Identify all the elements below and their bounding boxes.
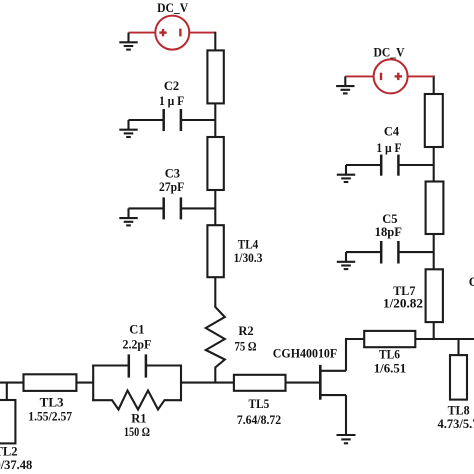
svg-text:C2: C2 <box>164 79 179 93</box>
voltage source V2 <box>374 59 408 93</box>
ground at C5 <box>337 252 355 269</box>
svg-text:R1: R1 <box>131 411 146 425</box>
resistor R1 (bottom branch) <box>92 391 182 410</box>
svg-text:1.55/2.57: 1.55/2.57 <box>28 410 72 424</box>
svg-text:C: C <box>469 275 474 289</box>
transmission line (upper right bias) <box>425 94 443 147</box>
svg-text:1 µ F: 1 µ F <box>376 141 402 155</box>
svg-text:C1: C1 <box>129 322 144 336</box>
capacitor C5 <box>346 241 434 264</box>
transmission line TL7 <box>426 269 443 322</box>
svg-text:TL4: TL4 <box>238 237 259 251</box>
output wire <box>415 338 474 340</box>
transmission line TL2 <box>0 400 15 443</box>
capacitor C1 (top branch) <box>92 354 182 377</box>
capacitor C3 <box>129 197 216 219</box>
transmission line TL8 <box>450 355 467 400</box>
wire TL7 to output node <box>433 322 435 339</box>
wire box to TL5 <box>181 382 234 384</box>
svg-text:C5: C5 <box>382 212 397 226</box>
svg-text:C4: C4 <box>384 125 400 139</box>
svg-text:TL2: TL2 <box>0 445 18 459</box>
svg-text:1/20.82: 1/20.82 <box>383 296 423 310</box>
svg-text:75 Ω: 75 Ω <box>234 339 256 353</box>
wire V1 to bias line <box>214 32 216 51</box>
svg-text:TL6: TL6 <box>379 348 400 362</box>
wire V2 right (red) <box>407 75 433 77</box>
svg-text:TL8: TL8 <box>448 404 470 418</box>
C1R1 box right edge <box>180 365 182 402</box>
ground at Q1 source <box>337 435 356 443</box>
transmission line (upper left bias) <box>207 50 223 103</box>
wire source to ground <box>345 395 347 434</box>
svg-text:4.73/5.78: 4.73/5.78 <box>438 417 474 431</box>
transistor Q1 CGH40010F <box>320 365 346 400</box>
svg-text:TL3: TL3 <box>40 396 64 410</box>
wire stub to TL2 <box>6 383 8 400</box>
transmission line (mid right bias) <box>426 182 444 235</box>
wire output node to TL8 <box>457 339 459 355</box>
svg-text:C3: C3 <box>165 166 180 180</box>
ground at V2 <box>336 76 354 93</box>
voltage source V1 <box>155 16 189 50</box>
transmission line TL5 <box>234 375 286 391</box>
svg-text:18pF: 18pF <box>375 225 403 239</box>
ground at C2 <box>119 120 137 137</box>
svg-text:0/37.48: 0/37.48 <box>0 458 32 472</box>
input wire to TL3 <box>0 382 25 384</box>
transmission line TL6 <box>364 331 415 347</box>
wire to C3 node <box>214 190 216 225</box>
wire C4 node to mid right bias TL <box>433 147 435 182</box>
svg-text:1/6.51: 1/6.51 <box>374 361 407 375</box>
svg-text:27pF: 27pF <box>159 180 184 194</box>
wire V2 left (red) <box>345 75 373 77</box>
svg-text:DC_V: DC_V <box>374 46 405 60</box>
svg-text:CGH40010F: CGH40010F <box>273 347 338 361</box>
wire V1 right (red) <box>189 32 215 34</box>
svg-text:150 Ω: 150 Ω <box>124 425 150 439</box>
svg-text:DC_V: DC_V <box>157 1 188 15</box>
ground at V1 <box>119 33 137 50</box>
svg-text:2.2pF: 2.2pF <box>123 337 152 351</box>
svg-text:TL5: TL5 <box>249 397 270 411</box>
svg-text:1/30.3: 1/30.3 <box>234 251 263 265</box>
C1R1 box left edge <box>92 365 94 402</box>
capacitor C4 <box>346 155 434 176</box>
svg-text:R2: R2 <box>238 324 253 338</box>
wire V2 to upper right bias TL <box>433 76 435 95</box>
capacitor C2 <box>129 109 216 131</box>
transmission line TL4 <box>207 225 223 277</box>
ground at C3 <box>119 208 137 225</box>
svg-text:7.64/8.72: 7.64/8.72 <box>237 413 281 427</box>
wire to C2 node <box>214 103 216 137</box>
wire TL3 to C1R1 box <box>76 382 93 384</box>
transmission line (mid left bias) <box>207 137 223 190</box>
ground at C4 <box>337 165 355 182</box>
wire C5 node to TL7 <box>433 234 435 269</box>
wire drain to TL6 <box>346 339 364 371</box>
wire V1 left (red) <box>129 32 156 34</box>
resistor R2 <box>206 306 225 384</box>
transmission line TL3 <box>24 374 77 391</box>
wire TL5 to gate <box>286 382 321 384</box>
svg-text:1 µ F: 1 µ F <box>159 94 185 108</box>
wire TL4 to R2 <box>214 277 216 306</box>
